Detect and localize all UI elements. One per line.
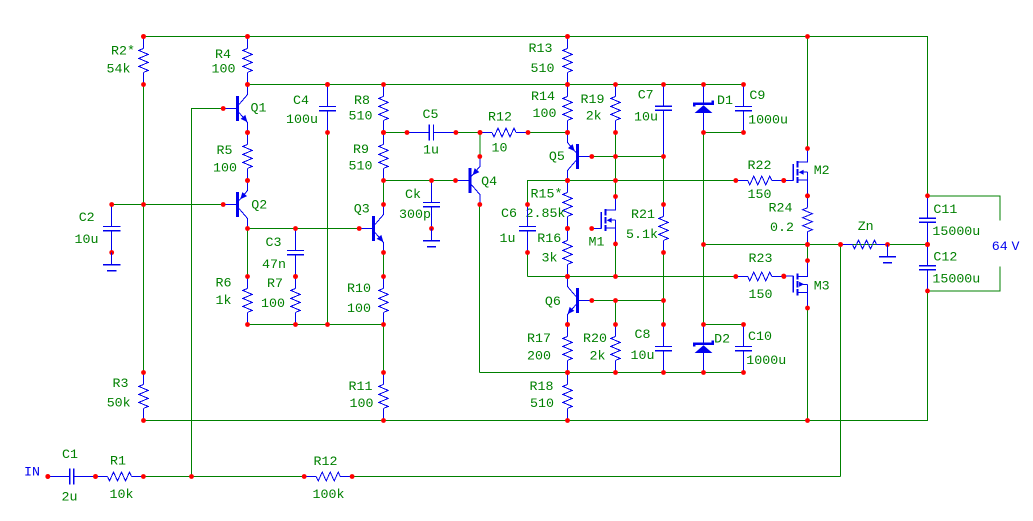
junction R15-R16 / M1 gate <box>565 226 570 231</box>
svg-text:C12: C12 <box>933 249 957 264</box>
resistor R16 <box>537 226 572 279</box>
svg-text:Q2: Q2 <box>251 198 267 213</box>
svg-text:5.1k: 5.1k <box>626 227 658 242</box>
svg-text:Q3: Q3 <box>354 202 370 217</box>
resistor R12 (100k) <box>302 454 355 502</box>
svg-text:Q6: Q6 <box>545 294 561 309</box>
svg-text:R24: R24 <box>769 200 793 215</box>
junction top rail / M2 drain line <box>805 34 810 39</box>
svg-text:150: 150 <box>749 287 773 302</box>
resistor R15* <box>526 178 573 231</box>
wire left column R2 bottom to R3 top <box>143 85 145 373</box>
svg-text:100: 100 <box>213 160 237 175</box>
svg-text:V: V <box>1012 239 1020 254</box>
wire Q6 base line down to C8 <box>663 301 665 325</box>
svg-text:100k: 100k <box>313 487 345 502</box>
svg-text:54k: 54k <box>107 61 131 76</box>
transistor Q6 (NPN) <box>545 274 594 327</box>
wire input line R1 to R12 <box>143 476 304 478</box>
resistor R17 <box>527 322 572 375</box>
svg-text:Ck: Ck <box>405 187 421 202</box>
svg-text:10: 10 <box>492 141 508 156</box>
svg-text:100: 100 <box>347 301 371 316</box>
svg-text:1u: 1u <box>500 231 516 246</box>
junction input line / feedback divider <box>189 474 194 479</box>
wire Q4 collector down to lower mid bus <box>479 205 481 373</box>
svg-text:10k: 10k <box>110 487 134 502</box>
svg-text:R6: R6 <box>216 276 232 291</box>
svg-text:1000u: 1000u <box>746 353 786 368</box>
svg-text:R19: R19 <box>581 92 605 107</box>
wire junction down to Q4 emitter <box>479 133 481 157</box>
MOSFET M1 (N-channel) <box>589 194 618 249</box>
resistor R23 <box>733 251 786 302</box>
wire C4 bottom down to bottom-left bus <box>327 133 329 325</box>
svg-text:R23: R23 <box>749 251 773 266</box>
svg-text:R5: R5 <box>217 143 233 158</box>
svg-text:R8: R8 <box>354 93 370 108</box>
svg-text:510: 510 <box>531 61 555 76</box>
svg-text:D2: D2 <box>714 331 730 346</box>
svg-text:50k: 50k <box>107 396 131 411</box>
transistor Q2 (PNP) <box>221 178 267 231</box>
svg-text:C7: C7 <box>638 88 654 103</box>
svg-text:Q5: Q5 <box>549 149 565 164</box>
junction R8-R9 / C5 wire <box>381 130 386 135</box>
junction VAS line / R15 <box>565 178 570 183</box>
junction bottom rail / M3 source <box>805 418 810 423</box>
resistor R22 <box>733 158 786 202</box>
wire C7 bottom down to R21 top <box>663 157 665 205</box>
svg-text:100: 100 <box>533 106 557 121</box>
svg-text:R1: R1 <box>110 454 126 469</box>
svg-text:1k: 1k <box>216 293 232 308</box>
resistor R12 (10) <box>478 110 531 156</box>
svg-text:R10: R10 <box>347 281 371 296</box>
wire D1/C9 bottom link <box>704 132 744 134</box>
capacitor C4 <box>286 82 336 135</box>
capacitor C10 <box>735 322 786 375</box>
svg-text:2u: 2u <box>62 490 78 505</box>
wire bias chain D1 bottom to D2 top <box>703 133 705 325</box>
capacitor C11 <box>919 193 980 247</box>
svg-text:510: 510 <box>349 109 373 124</box>
junction drive line / M1 source <box>613 274 618 279</box>
junction top rail / R2 <box>141 34 146 39</box>
wire Q2 collector to C3 and Q3 base <box>248 228 360 230</box>
svg-text:47n: 47n <box>262 257 286 272</box>
capacitor C9 <box>735 82 788 135</box>
wire Q1 base feedback line down to input node <box>192 109 224 477</box>
wire R21 bottom down to Q6 base line <box>663 252 665 300</box>
capacitor C6 <box>500 202 537 255</box>
resistor R11 <box>349 370 389 423</box>
capacitor C8 <box>631 322 673 375</box>
wire Q6 base line <box>592 300 664 302</box>
wire C5 right to R12 left junction <box>456 132 480 134</box>
wire 64V bracket top <box>928 196 1001 221</box>
svg-text:R13: R13 <box>529 41 553 56</box>
junction Q6 base line / R21-C8 <box>661 298 666 303</box>
wire Q5 base line to R19 and C7 <box>592 156 664 158</box>
ground (under Ck) <box>423 229 440 247</box>
svg-text:R4: R4 <box>215 47 231 62</box>
svg-text:R3: R3 <box>113 376 129 391</box>
svg-text:R12: R12 <box>314 454 338 469</box>
svg-text:R16: R16 <box>537 231 561 246</box>
capacitor Ck <box>399 178 440 231</box>
wire D2/C10 top link <box>704 324 744 326</box>
node IN (input terminal) <box>24 464 50 479</box>
junction bottom-left bus / C4 line <box>325 322 330 327</box>
svg-text:IN: IN <box>24 464 40 479</box>
svg-text:C1: C1 <box>62 447 78 462</box>
wire output rail down to M3 drain <box>807 245 809 261</box>
ground (under Zobel network) <box>879 245 896 263</box>
wire second bus y84 (R4/C4/R8/R13/R19/C7/D1/C9) <box>248 84 744 86</box>
svg-text:R20: R20 <box>583 331 607 346</box>
resistor Zn (Zobel network) <box>838 219 890 249</box>
transistor Q3 (NPN) <box>354 202 386 255</box>
svg-text:1u: 1u <box>423 143 439 158</box>
wire M1 source down to lower drive line <box>615 244 617 277</box>
svg-text:300p: 300p <box>399 207 431 222</box>
svg-text:100: 100 <box>350 396 374 411</box>
svg-text:C11: C11 <box>933 202 957 217</box>
junction Q6 base line / R20 <box>613 298 618 303</box>
svg-text:R2*: R2* <box>111 43 135 58</box>
wire VAS output line to R22 (M2 gate drive) <box>528 180 736 182</box>
wire R9 bottom to Ck and Q4 base <box>384 180 456 182</box>
resistor R14 <box>531 82 572 135</box>
svg-text:C6: C6 <box>501 206 517 221</box>
capacitor C5 <box>405 107 459 158</box>
resistor R7 <box>261 274 300 327</box>
wire C6 bottom to lower corner <box>527 253 529 277</box>
junction Q5 base line / R19 <box>613 154 618 159</box>
resistor R1 <box>93 454 146 502</box>
resistor R21 <box>626 202 668 255</box>
wire output rail to C11/C12 midpoint <box>704 244 928 246</box>
svg-text:R21: R21 <box>631 207 655 222</box>
resistor R2* <box>107 34 149 87</box>
resistor R18 <box>530 370 573 423</box>
resistor R4 <box>212 34 253 87</box>
svg-text:510: 510 <box>530 396 554 411</box>
capacitor C2 <box>75 202 121 255</box>
svg-text:R9: R9 <box>353 142 369 157</box>
svg-text:150: 150 <box>748 187 772 202</box>
wire M3 source down to bottom rail <box>807 308 809 420</box>
junction output rail / C11-C12 <box>925 242 930 247</box>
svg-text:R15*: R15* <box>531 187 563 202</box>
svg-text:C8: C8 <box>635 327 651 342</box>
wire Q3 emitter to R10 top <box>383 253 385 277</box>
MOSFET M3 (N-channel) <box>781 258 829 310</box>
junction output rail / bias chain <box>701 242 706 247</box>
junction output rail / R24-M3 <box>805 242 810 247</box>
svg-text:Q1: Q1 <box>251 101 267 116</box>
capacitor C1 <box>45 447 98 505</box>
svg-text:3k: 3k <box>542 251 558 266</box>
zener diode D2 <box>694 322 730 375</box>
svg-text:Q4: Q4 <box>481 174 497 189</box>
capacitor C7 <box>634 82 672 159</box>
svg-text:1000u: 1000u <box>748 112 788 127</box>
resistor R8 <box>349 82 389 135</box>
resistor R20 <box>583 322 620 375</box>
wire lower mid bus (R17/R20/C8/D2/C10 bottoms) <box>480 372 744 374</box>
junction drive line / R16-Q6 <box>565 274 570 279</box>
wire positive top rail V+ to C11 <box>144 37 928 196</box>
transistor Q4 (PNP) <box>453 154 497 207</box>
svg-text:Zn: Zn <box>858 219 874 234</box>
svg-text:100: 100 <box>261 296 285 311</box>
resistor R13 <box>529 34 573 87</box>
wire Q5 collector left and down to C6 <box>528 181 568 205</box>
svg-text:100u: 100u <box>286 112 318 127</box>
wire R9 bottom to Q3 collector <box>383 181 385 205</box>
svg-text:M1: M1 <box>589 235 605 250</box>
junction left column / C2-Q2 wire <box>141 202 146 207</box>
svg-text:510: 510 <box>349 159 373 174</box>
resistor R24 <box>769 193 813 247</box>
svg-text:C10: C10 <box>748 329 772 344</box>
wire Q6 base line down to R20 <box>615 301 617 325</box>
svg-text:M3: M3 <box>814 279 830 294</box>
node 64 V (supply voltage label) <box>992 239 1020 254</box>
wire 64V bracket bottom <box>928 266 1001 291</box>
svg-text:C5: C5 <box>423 107 439 122</box>
svg-text:15000u: 15000u <box>932 272 980 287</box>
svg-text:C9: C9 <box>749 88 765 103</box>
junction top rail / R13 <box>565 34 570 39</box>
junction C5-R12 / Q4 emitter <box>478 130 483 135</box>
wire C2 to Q2 base <box>112 204 224 206</box>
ground (under C2) <box>103 253 120 271</box>
wire R12 right to R14 bottom <box>528 132 568 134</box>
wire output feedback down to input line <box>840 245 842 477</box>
wire R10 bottom to R11 top <box>383 325 385 373</box>
wire R6/R7 bottoms to R10 bottom <box>248 324 384 326</box>
wire R19 bottom through junctions to M1 drain <box>615 133 617 197</box>
resistor R6 <box>216 274 253 327</box>
resistor R5 <box>213 130 252 183</box>
svg-text:R14: R14 <box>531 89 555 104</box>
svg-text:10u: 10u <box>631 348 655 363</box>
svg-text:C4: C4 <box>293 93 309 108</box>
svg-text:R22: R22 <box>748 158 772 173</box>
svg-text:2.85k: 2.85k <box>526 206 566 221</box>
resistor R10 <box>347 274 388 327</box>
svg-text:2k: 2k <box>590 349 606 364</box>
transistor Q5 (PNP) <box>549 130 594 183</box>
wire lower drive line to R23 (M3 gate drive) <box>528 276 736 278</box>
svg-text:M2: M2 <box>814 163 830 178</box>
MOSFET M2 (N-channel) <box>781 146 829 198</box>
svg-text:D1: D1 <box>717 93 733 108</box>
svg-text:200: 200 <box>527 349 551 364</box>
junction bus84 / C4 <box>325 82 330 87</box>
svg-text:64: 64 <box>992 239 1008 254</box>
svg-text:R12: R12 <box>488 110 512 125</box>
transistor Q1 (NPN) <box>221 82 267 135</box>
zener diode D1 <box>694 82 733 135</box>
wire R8/R9 junction to C5 left <box>384 132 408 134</box>
svg-text:15000u: 15000u <box>932 224 980 239</box>
wire feedback line from R12 to output column <box>352 476 840 478</box>
svg-text:2k: 2k <box>586 109 602 124</box>
svg-text:C2: C2 <box>79 210 95 225</box>
svg-text:100: 100 <box>212 61 236 76</box>
svg-text:R18: R18 <box>530 379 554 394</box>
svg-text:10u: 10u <box>634 109 658 124</box>
capacitor C3 <box>262 226 304 279</box>
svg-text:R17: R17 <box>527 331 551 346</box>
resistor R9 <box>349 130 389 183</box>
wire bottom rail to C12 <box>144 291 928 421</box>
resistor R19 <box>581 82 621 135</box>
junction top rail / R4 <box>245 34 250 39</box>
svg-text:0.2: 0.2 <box>770 220 794 235</box>
svg-text:R7: R7 <box>267 276 283 291</box>
resistor R3 <box>107 370 149 423</box>
svg-text:10u: 10u <box>75 232 99 247</box>
wire Q2 collector down to R6 <box>247 229 249 277</box>
junction output rail / feedback <box>838 242 843 247</box>
svg-text:C3: C3 <box>266 235 282 250</box>
capacitor C12 <box>919 242 980 293</box>
wire V+ rail down to M2 drain <box>807 37 809 149</box>
junction VAS line / M1 drain <box>613 178 618 183</box>
svg-text:R11: R11 <box>349 379 373 394</box>
